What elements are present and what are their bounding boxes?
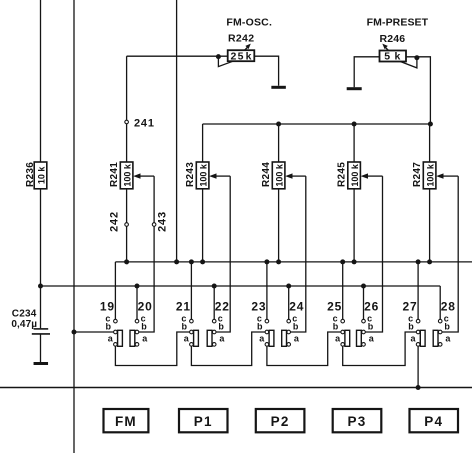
- arrow of R246: [385, 47, 388, 50]
- wire: [267, 332, 341, 366]
- svg-text:23: 23: [251, 300, 266, 314]
- connector 22 contact a: [212, 343, 216, 347]
- wire: [190, 262, 192, 319]
- wire: [40, 0, 42, 162]
- wire: [127, 55, 228, 57]
- wire: [406, 57, 430, 124]
- svg-text:19: 19: [100, 300, 115, 314]
- svg-text:100 k: 100 k: [199, 163, 209, 187]
- junction: [352, 259, 357, 264]
- node 243: [152, 223, 156, 227]
- wire: [363, 286, 365, 319]
- wire: [74, 331, 114, 333]
- button FM: [104, 409, 149, 432]
- svg-text:R242: R242: [228, 32, 254, 44]
- svg-text:b: b: [182, 322, 188, 332]
- wire: [136, 286, 138, 319]
- resistor R245: [348, 162, 361, 189]
- node 242: [125, 223, 129, 227]
- svg-text:R245: R245: [337, 162, 348, 187]
- wire: [342, 262, 344, 319]
- junction: [72, 330, 77, 335]
- svg-text:10 k: 10 k: [36, 166, 46, 185]
- wire: [417, 346, 419, 387]
- wire: [353, 124, 355, 162]
- wire: [40, 189, 42, 328]
- connector 26 contact a: [362, 343, 366, 347]
- junction: [416, 259, 421, 264]
- junction: [361, 284, 366, 289]
- svg-text:P3: P3: [348, 414, 367, 429]
- wire: [191, 332, 265, 366]
- connector 20 contact b: [135, 330, 139, 334]
- svg-text:b: b: [106, 322, 112, 332]
- jumper bracket 28: [433, 330, 438, 346]
- svg-text:b: b: [368, 322, 374, 332]
- connector 19 contact b: [114, 330, 118, 334]
- svg-text:25: 25: [327, 300, 342, 314]
- svg-text:P1: P1: [194, 414, 213, 429]
- svg-text:100 k: 100 k: [426, 163, 436, 187]
- svg-text:R236: R236: [25, 162, 36, 187]
- connector 24 contact c: [287, 319, 291, 323]
- wiper arrow of R244: [285, 173, 292, 178]
- connector 27 contact b: [416, 330, 420, 334]
- jumper bracket 26: [357, 330, 362, 346]
- svg-text:P4: P4: [424, 414, 443, 429]
- jumper bracket 20: [130, 330, 135, 346]
- wire: [365, 176, 382, 332]
- wire: [443, 175, 458, 177]
- svg-text:b: b: [257, 322, 263, 332]
- wire: [176, 0, 178, 262]
- jumper bracket 22: [207, 330, 212, 346]
- connector 23 contact b: [265, 330, 269, 334]
- button P3: [333, 409, 382, 432]
- svg-text:b: b: [293, 322, 299, 332]
- connector 28 contact c: [438, 319, 442, 323]
- potentiometer R242: [228, 50, 255, 61]
- wiper arrow of R241: [133, 173, 140, 178]
- jumper bracket 25: [345, 330, 350, 346]
- svg-text:R241: R241: [109, 162, 120, 187]
- connector 24 contact b: [287, 330, 291, 334]
- connector 24 contact a: [287, 343, 291, 347]
- svg-text:26: 26: [364, 300, 379, 314]
- potentiometer R246: [380, 51, 407, 62]
- junction: [286, 284, 291, 289]
- wire: [115, 261, 472, 263]
- svg-text:FM-OSC.: FM-OSC.: [226, 16, 272, 28]
- junction: [414, 55, 419, 60]
- connector 25 contact a: [341, 343, 345, 347]
- wire: [203, 123, 431, 125]
- svg-text:b: b: [141, 322, 147, 332]
- junction: [427, 259, 432, 264]
- svg-text:27: 27: [403, 300, 418, 314]
- junction: [200, 259, 205, 264]
- svg-text:5 k: 5 k: [384, 51, 401, 63]
- resistor R247: [423, 162, 436, 189]
- wire: [140, 175, 154, 177]
- svg-text:241: 241: [134, 118, 155, 130]
- svg-text:24: 24: [289, 300, 304, 314]
- resistor R236: [34, 162, 47, 189]
- wire: [288, 286, 290, 319]
- wire: [354, 57, 379, 87]
- connector 21 contact b: [190, 330, 194, 334]
- wiper of R246: [400, 58, 417, 68]
- wire: [266, 262, 268, 319]
- svg-text:C234: C234: [12, 308, 37, 319]
- junction: [212, 284, 217, 289]
- wire: [202, 189, 204, 262]
- svg-text:R246: R246: [379, 33, 405, 45]
- svg-text:243: 243: [156, 211, 168, 232]
- capacitor C234: [34, 328, 49, 330]
- junction: [276, 259, 281, 264]
- wire: [126, 189, 128, 262]
- junction: [340, 259, 345, 264]
- wire: [216, 176, 230, 332]
- connector 28 contact a: [438, 343, 442, 347]
- junction: [216, 54, 221, 59]
- svg-text:100 k: 100 k: [350, 163, 360, 187]
- junction: [38, 284, 43, 289]
- wire: [442, 176, 458, 332]
- wire: [139, 176, 154, 332]
- connector 28 contact b: [438, 330, 442, 334]
- wire: [278, 189, 280, 262]
- wire: [0, 387, 472, 389]
- wire: [353, 189, 355, 262]
- connector 21 contact c: [190, 319, 194, 323]
- button P1: [179, 409, 228, 432]
- svg-text:R244: R244: [261, 162, 272, 187]
- svg-text:25k: 25k: [231, 50, 252, 62]
- wire: [367, 175, 382, 177]
- junction: [416, 385, 421, 390]
- connector 25 contact c: [341, 319, 345, 323]
- wiper arrow of R243: [209, 173, 216, 178]
- wire: [40, 334, 42, 362]
- connector 26 contact b: [362, 330, 366, 334]
- svg-text:20: 20: [138, 300, 153, 314]
- jumper bracket 23: [269, 330, 274, 346]
- svg-text:b: b: [444, 322, 450, 332]
- wiper arrow of R247: [436, 173, 443, 178]
- wire: [291, 176, 306, 332]
- wire: [278, 124, 280, 162]
- svg-text:b: b: [408, 322, 414, 332]
- connector 22 contact c: [212, 319, 216, 323]
- ground: [34, 362, 49, 365]
- connector 25 contact b: [341, 330, 345, 334]
- svg-text:242: 242: [109, 211, 121, 232]
- button P2: [256, 409, 305, 432]
- connector 26 contact c: [362, 319, 366, 323]
- connector 27 contact a: [416, 343, 420, 347]
- node 241: [125, 120, 129, 124]
- resistor R244: [272, 162, 285, 189]
- connector 19 contact c: [114, 319, 118, 323]
- svg-text:22: 22: [215, 300, 230, 314]
- svg-text:R247: R247: [412, 162, 423, 187]
- svg-text:100 k: 100 k: [275, 163, 285, 187]
- jumper bracket 21: [194, 330, 199, 346]
- wire: [115, 332, 189, 366]
- svg-text:R243: R243: [185, 162, 196, 187]
- jumper bracket 27: [420, 330, 425, 346]
- connector 27 contact c: [416, 319, 420, 323]
- wire: [254, 56, 278, 86]
- junction: [124, 259, 129, 264]
- wire: [73, 0, 75, 453]
- svg-text:21: 21: [176, 300, 191, 314]
- connector 20 contact c: [135, 319, 139, 323]
- wiper arrow of R245: [361, 173, 368, 178]
- wire: [292, 175, 306, 177]
- connector 23 contact a: [265, 343, 269, 347]
- connector 20 contact a: [135, 343, 139, 347]
- junction: [264, 259, 269, 264]
- svg-text:28: 28: [441, 300, 456, 314]
- svg-text:FM-PRESET: FM-PRESET: [367, 17, 429, 29]
- jumper bracket 19: [118, 330, 123, 346]
- button P4: [410, 409, 459, 432]
- junction: [352, 122, 357, 127]
- svg-text:FM: FM: [115, 414, 137, 429]
- wire: [114, 262, 116, 319]
- wire: [429, 124, 431, 162]
- wire: [429, 189, 431, 262]
- connector 22 contact b: [212, 330, 216, 334]
- junction: [189, 259, 194, 264]
- wire: [343, 332, 417, 366]
- svg-text:P2: P2: [271, 414, 290, 429]
- jumper bracket 24: [282, 330, 287, 346]
- wire: [439, 286, 441, 319]
- wiper of R242: [218, 57, 233, 67]
- junction: [428, 122, 433, 127]
- svg-text:0,47µ: 0,47µ: [11, 319, 37, 330]
- connector 23 contact c: [265, 319, 269, 323]
- resistor R241: [120, 162, 133, 189]
- wire: [213, 286, 215, 319]
- junction: [135, 284, 140, 289]
- resistor R243: [196, 162, 209, 189]
- ground: [271, 86, 286, 89]
- svg-text:b: b: [333, 322, 339, 332]
- junction: [276, 122, 281, 127]
- junction: [174, 259, 179, 264]
- arrow of R242: [245, 47, 248, 50]
- wire: [126, 56, 128, 162]
- connector 21 contact a: [190, 343, 194, 347]
- connector 19 contact a: [114, 343, 118, 347]
- wire: [417, 262, 419, 319]
- wire: [216, 175, 230, 177]
- svg-text:100 k: 100 k: [123, 163, 133, 187]
- ground: [347, 87, 362, 90]
- wire: [41, 285, 441, 287]
- svg-text:b: b: [218, 322, 224, 332]
- wire: [202, 124, 204, 162]
